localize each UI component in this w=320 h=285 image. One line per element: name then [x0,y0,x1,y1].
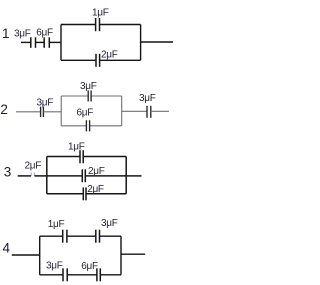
svg-text:2μF: 2μF [88,166,105,177]
value label 1uF (C13) [48,219,65,230]
value label 3uF (C5) [37,97,54,108]
svg-text:4: 4 [3,240,11,255]
wire C5 to box2 [43,111,61,113]
svg-text:3μF: 3μF [80,81,97,92]
svg-text:1μF: 1μF [48,219,65,230]
wire left lead circuit 1 [21,41,31,43]
wire C2 to box1 [49,41,61,43]
capacitor C6 3uF (top branch) [88,91,91,102]
value label 6uF (C7) [77,108,94,119]
value label 3uF (C8) [139,93,156,104]
capacitor C4 2uF (bottom branch) [96,54,100,67]
svg-text:6μF: 6μF [77,108,94,119]
wire right lead circuit 1 [141,41,173,43]
wire left lead circuit 3 [18,175,31,177]
svg-text:1μF: 1μF [92,7,109,18]
svg-text:2μF: 2μF [87,184,104,195]
value label 3uF (C14) [101,218,118,229]
wire right lead circuit 4 [121,253,145,255]
svg-text:1μF: 1μF [68,141,85,152]
svg-text:2μF: 2μF [101,50,118,61]
label 2 [0,102,8,117]
svg-text:6μF: 6μF [36,28,53,39]
node box4 parallel loop wires [40,236,121,275]
svg-text:3μF: 3μF [101,218,118,229]
capacitor C11 2uF (middle branch) [82,169,85,182]
capacitor C10 1uF (top branch) [80,150,83,163]
value label 2uF (C9) [25,161,42,172]
capacitor C16 6uF (bottom branch right) [97,268,100,281]
capacitor C12 2uF (bottom branch) [83,187,86,200]
node box3 parallel loop wires [47,157,126,194]
value label 1uF (C10) [68,141,85,152]
svg-text:2μF: 2μF [25,161,42,172]
value label 2uF (C11) [88,166,105,177]
node box2 parallel loop wires [61,96,121,126]
value label 3uF (C15) [46,261,63,272]
wire between C1 and C2 [36,41,45,43]
capacitor C9 2uF (small plates) [31,173,34,176]
svg-text:3μF: 3μF [37,97,54,108]
label 4 [3,240,11,255]
capacitor C8 3uF [147,106,151,118]
wire C9 to box3 [35,175,47,177]
capacitor C13 1uF (top branch left) [63,230,67,243]
wire right lead circuit 3 [126,175,141,177]
capacitor C2 6uF [44,37,49,48]
wire box2 to C8 [122,110,147,112]
value label 3uF (C6) [80,81,97,92]
node box1 parallel loop wires [61,25,141,61]
svg-text:2: 2 [0,102,8,117]
svg-text:3μF: 3μF [14,28,31,39]
svg-text:3μF: 3μF [46,261,63,272]
label 1 [2,26,10,41]
capacitor C1 3uF [31,37,36,48]
label 3 [4,164,12,179]
value label 2uF (C4) [101,50,118,61]
value label 3uF (C1) [14,28,31,39]
svg-text:1: 1 [2,26,10,41]
svg-text:6μF: 6μF [81,261,98,272]
svg-text:3: 3 [4,164,12,179]
svg-text:3μF: 3μF [139,93,156,104]
value label 6uF (C2) [36,28,53,39]
capacitor C3 1uF (top branch) [96,18,100,31]
capacitor C5 3uF [41,107,44,117]
capacitor C7 6uF (bottom branch) [86,120,89,131]
wire left lead circuit 4 [12,254,40,256]
wire left lead circuit 2 [16,111,41,113]
capacitor C15 3uF (bottom branch left) [63,268,67,281]
value label 6uF (C16) [81,261,98,272]
capacitor C14 3uF (top branch right) [96,230,100,243]
value label 2uF (C12) [87,184,104,195]
wire right lead circuit 2 [151,110,169,112]
value label 1uF (C3) [92,7,109,18]
